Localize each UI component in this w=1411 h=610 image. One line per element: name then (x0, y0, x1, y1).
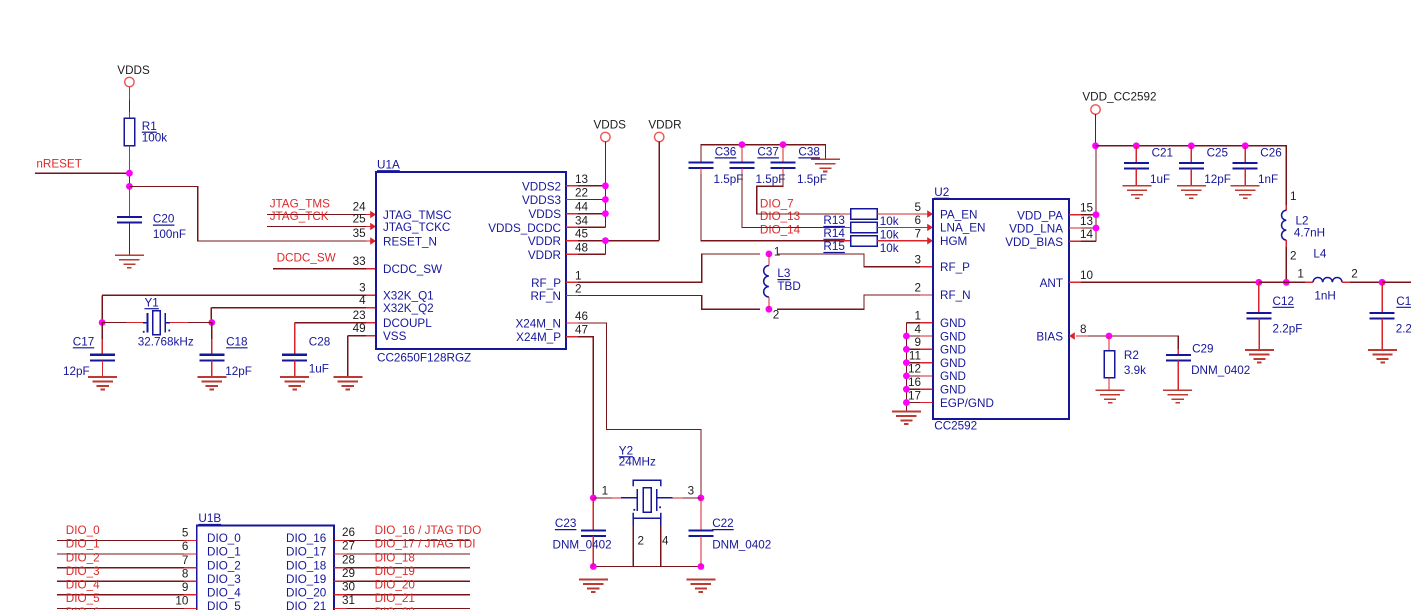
svg-text:VSS: VSS (383, 330, 407, 343)
svg-text:DIO_17: DIO_17 (286, 546, 326, 559)
svg-text:2: 2 (914, 282, 921, 295)
svg-text:8: 8 (182, 567, 189, 580)
junction C37 bus (739, 141, 746, 148)
svg-text:VDDR: VDDR (648, 119, 681, 132)
junction VDD pins (1093, 211, 1100, 231)
svg-text:1: 1 (774, 245, 781, 258)
svg-text:DIO_3: DIO_3 (66, 565, 100, 578)
svg-text:VDDR: VDDR (528, 235, 561, 248)
net label DCDC_SW (277, 252, 336, 265)
wire R13 to PA_EN (877, 213, 933, 215)
pin numbers U1B right (342, 526, 356, 607)
svg-text:6: 6 (182, 540, 189, 553)
svg-text:RF_P: RF_P (531, 277, 561, 290)
junction pin45/48 (602, 237, 609, 244)
svg-text:C26: C26 (1260, 147, 1281, 160)
wire ANT out (1382, 281, 1411, 283)
svg-text:DIO_14: DIO_14 (760, 223, 801, 236)
svg-text:49: 49 (353, 322, 366, 335)
svg-text:1: 1 (1297, 267, 1304, 280)
svg-text:VDDS_DCDC: VDDS_DCDC (488, 222, 561, 235)
svg-text:DIO_16: DIO_16 (286, 532, 326, 545)
capacitor C25 (1179, 146, 1231, 186)
capacitor C37 (730, 145, 786, 186)
wire R1 to node (128, 146, 130, 187)
svg-text:4: 4 (359, 294, 366, 307)
svg-text:DIO_5: DIO_5 (207, 600, 241, 610)
svg-text:X24M_P: X24M_P (516, 331, 561, 344)
pin numbers U1B left (175, 527, 189, 608)
svg-text:1: 1 (1290, 190, 1297, 203)
svg-text:100nF: 100nF (153, 228, 186, 241)
svg-text:DIO_1: DIO_1 (207, 546, 241, 559)
svg-text:X24M_N: X24M_N (516, 318, 561, 331)
svg-text:RF_N: RF_N (940, 289, 971, 302)
svg-text:C29: C29 (1192, 343, 1213, 356)
ground C20 (115, 255, 144, 267)
wire L4 to C13 (1342, 281, 1382, 283)
svg-text:DIO_6: DIO_6 (66, 606, 100, 610)
wire U2 ground bus (906, 323, 932, 412)
junction L2 bottom (1283, 279, 1290, 286)
svg-text:DIO_16 / JTAG TDO: DIO_16 / JTAG TDO (375, 524, 482, 537)
svg-text:10: 10 (1080, 269, 1094, 282)
junction R2 (1106, 333, 1113, 340)
svg-text:45: 45 (575, 228, 589, 241)
svg-text:VDDS: VDDS (594, 119, 627, 132)
svg-text:14: 14 (1080, 228, 1094, 241)
svg-text:1.5pF: 1.5pF (797, 173, 827, 186)
svg-text:48: 48 (575, 241, 588, 254)
svg-text:PA_EN: PA_EN (940, 208, 977, 221)
power symbol VDDR (648, 119, 681, 241)
svg-text:CC2592: CC2592 (934, 420, 977, 433)
svg-text:10k: 10k (880, 215, 899, 228)
svg-text:1nH: 1nH (1314, 290, 1335, 303)
svg-text:C17: C17 (73, 335, 94, 348)
svg-text:Y1: Y1 (145, 296, 159, 309)
svg-text:JTAG_TCK: JTAG_TCK (270, 210, 329, 223)
svg-text:JTAG_TCKC: JTAG_TCKC (383, 221, 450, 234)
svg-text:5: 5 (914, 201, 921, 214)
arrow pin7 (927, 237, 933, 244)
wire node to RESET_N pin (129, 186, 375, 241)
junction C38 bus (780, 141, 787, 148)
capacitor C38 (771, 145, 827, 186)
power symbol VDDS (117, 64, 150, 118)
svg-text:4.7nH: 4.7nH (1294, 226, 1325, 239)
svg-text:1uF: 1uF (309, 363, 329, 376)
net label DIO_14 (760, 223, 801, 236)
capacitor C23 (553, 498, 612, 567)
wire X32K_Q2 (211, 308, 376, 323)
svg-text:27: 27 (342, 540, 355, 553)
inductor L2 (1282, 190, 1326, 282)
svg-text:GND: GND (940, 330, 966, 343)
svg-text:VDDS: VDDS (117, 64, 150, 77)
svg-text:EGP/GND: EGP/GND (940, 397, 994, 410)
svg-text:47: 47 (575, 324, 588, 337)
svg-text:10: 10 (175, 595, 189, 608)
crystal Y2 (619, 444, 673, 518)
svg-text:U1B: U1B (198, 512, 221, 525)
svg-text:C37: C37 (757, 146, 778, 159)
arrow pin8 BIAS (1069, 332, 1075, 339)
junction Y2 pin3 (698, 495, 705, 502)
svg-text:C22: C22 (712, 517, 733, 530)
junction VDD rail (1092, 142, 1099, 149)
svg-text:33: 33 (353, 255, 366, 268)
svg-text:GND: GND (940, 357, 966, 370)
svg-text:6: 6 (914, 214, 921, 227)
svg-text:U1A: U1A (377, 158, 400, 171)
svg-text:12: 12 (908, 363, 921, 376)
wire X24M_N (566, 323, 701, 498)
ground C12 (1245, 350, 1274, 362)
capacitor C21 (1124, 146, 1173, 186)
ground C17 (88, 377, 117, 389)
svg-text:VDD_PA: VDD_PA (1017, 209, 1063, 222)
arrow pin35 RESET_N (370, 237, 376, 244)
svg-text:12pF: 12pF (1204, 173, 1231, 186)
ground cap bus (811, 159, 840, 171)
capacitor C20 (117, 186, 186, 255)
svg-text:2: 2 (638, 534, 645, 547)
junction C21 rail (1133, 142, 1140, 149)
svg-text:3.9k: 3.9k (1124, 364, 1146, 377)
svg-text:3: 3 (914, 254, 921, 267)
svg-text:X32K_Q1: X32K_Q1 (383, 290, 434, 303)
svg-text:C25: C25 (1207, 147, 1229, 160)
svg-text:R2: R2 (1124, 349, 1139, 362)
svg-text:C20: C20 (153, 213, 175, 226)
junction nRESET (126, 170, 133, 177)
capacitor C22 (688, 498, 771, 567)
junction rail right (698, 563, 705, 570)
svg-text:2: 2 (773, 309, 780, 322)
svg-text:C36: C36 (715, 146, 736, 159)
svg-text:32.768kHz: 32.768kHz (138, 336, 194, 349)
svg-text:4: 4 (662, 534, 669, 547)
wire pin13 VDDS2 (566, 185, 605, 187)
svg-text:2: 2 (1351, 267, 1358, 280)
svg-text:L4: L4 (1313, 248, 1327, 261)
wire nRESET (35, 172, 129, 174)
svg-text:10k: 10k (880, 242, 899, 255)
svg-text:VDDS3: VDDS3 (522, 194, 561, 207)
svg-text:2.2pF: 2.2pF (1396, 323, 1411, 336)
wire Y1 left (102, 322, 143, 324)
svg-text:DIO_0: DIO_0 (66, 524, 100, 537)
svg-text:C38: C38 (798, 146, 819, 159)
wire U1B right pins (334, 540, 470, 608)
svg-text:DIO_0: DIO_0 (207, 532, 241, 545)
svg-text:29: 29 (342, 567, 355, 580)
svg-text:HGM: HGM (940, 235, 967, 248)
svg-text:35: 35 (353, 227, 367, 240)
junction Y1 right (208, 319, 215, 326)
ground C18 (197, 377, 226, 389)
ground C13 (1368, 350, 1397, 362)
svg-text:12pF: 12pF (63, 365, 90, 378)
ground C21 (1123, 186, 1152, 198)
svg-text:VDDR: VDDR (528, 249, 561, 262)
resistor R13 (823, 209, 898, 228)
net label JTAG_TMS (270, 197, 330, 210)
svg-text:TBD: TBD (777, 280, 800, 293)
svg-text:9: 9 (914, 336, 921, 349)
wire pin48 VDDR (566, 241, 605, 255)
wire pin34 VDDS_DCDC (566, 226, 605, 228)
arrow pin5 (927, 210, 933, 217)
svg-text:11: 11 (909, 349, 921, 362)
IC U1B (197, 512, 334, 610)
svg-text:L2: L2 (1296, 214, 1309, 227)
wire DCDC_SW (273, 268, 376, 270)
node balun bottom pin2 (766, 306, 780, 322)
wire Y1 right (170, 322, 212, 324)
svg-text:1nF: 1nF (1258, 173, 1278, 186)
resistor R2 (1104, 336, 1146, 390)
wire DIO_7 net (757, 168, 851, 214)
svg-text:46: 46 (575, 310, 588, 323)
node balun top pin1 (766, 245, 781, 258)
ground C23 (579, 580, 608, 592)
svg-text:C13: C13 (1396, 295, 1411, 308)
svg-text:GND: GND (940, 370, 966, 383)
svg-text:GND: GND (940, 384, 966, 397)
resistor R1 (124, 118, 167, 146)
capacitor C12 (1247, 282, 1303, 350)
wire Y2 pin4 (661, 518, 669, 566)
svg-text:VDDS: VDDS (529, 208, 562, 221)
svg-text:DCDC_SW: DCDC_SW (277, 252, 336, 265)
svg-text:DIO_19: DIO_19 (375, 565, 415, 578)
wire VDD_PA (1069, 214, 1096, 216)
IC U1A CC2650F128RGZ (353, 158, 589, 364)
svg-text:2: 2 (575, 282, 582, 295)
junction rail left (590, 563, 597, 570)
svg-text:DIO_18: DIO_18 (375, 551, 415, 564)
wire cap bus (701, 145, 825, 163)
svg-text:ANT: ANT (1040, 277, 1063, 290)
svg-text:26: 26 (342, 526, 355, 539)
ground C29 (1163, 390, 1192, 402)
svg-text:3: 3 (688, 485, 695, 498)
svg-text:VDDS2: VDDS2 (522, 180, 561, 193)
wire DIO_14 net (701, 168, 851, 241)
svg-text:DIO_2: DIO_2 (207, 559, 241, 572)
svg-text:9: 9 (182, 581, 189, 594)
IC U2 CC2592 (908, 186, 1094, 433)
junction Y1 left (99, 319, 106, 326)
svg-text:DIO_5: DIO_5 (66, 592, 100, 605)
wire JTAG_TMS (267, 214, 376, 216)
svg-text:R15: R15 (823, 240, 845, 253)
svg-text:DIO_2: DIO_2 (66, 551, 100, 564)
ground R2 (1096, 390, 1125, 402)
net label DIO_7 (760, 198, 794, 211)
wire Y2 pin3 (673, 485, 701, 498)
svg-text:1.5pF: 1.5pF (756, 173, 786, 186)
capacitor C17 (63, 323, 115, 378)
junction C26 rail (1242, 142, 1249, 149)
capacitor C28 (282, 336, 330, 378)
arrow pin25 (370, 223, 376, 230)
inductor L4 (1297, 248, 1357, 303)
wire pin22 VDDS3 (566, 199, 605, 201)
svg-text:DIO_1: DIO_1 (66, 538, 100, 551)
svg-text:RF_N: RF_N (530, 290, 561, 303)
svg-text:5: 5 (182, 527, 189, 540)
svg-text:DCOUPL: DCOUPL (383, 317, 432, 330)
ground C26 (1231, 186, 1260, 198)
svg-text:DIO_4: DIO_4 (207, 587, 241, 600)
capacitor C29 (1166, 343, 1250, 391)
capacitor C36 (689, 146, 744, 186)
svg-text:DIO_3: DIO_3 (207, 573, 241, 586)
svg-text:VDD_CC2592: VDD_CC2592 (1082, 90, 1156, 103)
svg-text:JTAG_TMS: JTAG_TMS (270, 197, 330, 210)
svg-text:44: 44 (575, 201, 589, 214)
net labels DIO_0-5 (66, 524, 100, 610)
svg-text:VDD_LNA: VDD_LNA (1009, 223, 1063, 236)
arrow pin24 (370, 211, 376, 218)
wire VDD_BIAS (1069, 146, 1096, 242)
svg-text:1uF: 1uF (1150, 173, 1170, 186)
junction C12 (1255, 279, 1262, 286)
svg-text:7: 7 (914, 228, 921, 241)
wire RF_N (566, 295, 760, 309)
wire VDD rail (1096, 146, 1287, 205)
svg-text:DIO_20: DIO_20 (286, 587, 327, 600)
crystal Y1 (138, 296, 194, 348)
svg-text:2: 2 (1290, 249, 1297, 262)
svg-text:L3: L3 (777, 267, 790, 280)
net label nRESET (36, 157, 81, 170)
svg-text:DCDC_SW: DCDC_SW (383, 263, 442, 276)
svg-text:DIO_21: DIO_21 (375, 592, 415, 605)
wire R14 to LNA_EN (877, 226, 933, 228)
svg-text:X32K_Q2: X32K_Q2 (383, 302, 434, 315)
capacitor C26 (1233, 146, 1282, 186)
capacitor C13 (1370, 282, 1411, 350)
svg-text:VDD_BIAS: VDD_BIAS (1005, 236, 1063, 249)
svg-text:DIO_13: DIO_13 (760, 210, 800, 223)
net labels DIO_16-21 (375, 524, 482, 610)
svg-text:R14: R14 (823, 227, 845, 240)
wire VSS (348, 336, 376, 377)
resistor R15 (823, 236, 898, 255)
svg-text:DIO_21: DIO_21 (286, 600, 326, 610)
svg-text:23: 23 (353, 309, 366, 322)
svg-text:13: 13 (1080, 215, 1093, 228)
svg-text:28: 28 (342, 553, 355, 566)
wire VDD_LNA (1069, 227, 1096, 229)
svg-text:8: 8 (1080, 323, 1087, 336)
svg-text:DNM_0402: DNM_0402 (712, 538, 771, 551)
svg-text:C18: C18 (226, 335, 247, 348)
svg-text:DIO_7: DIO_7 (760, 198, 794, 211)
svg-text:1: 1 (575, 269, 582, 282)
svg-text:DIO_17 / JTAG TDI: DIO_17 / JTAG TDI (375, 538, 476, 551)
net label JTAG_TCK (270, 210, 329, 223)
svg-text:DIO_20: DIO_20 (375, 579, 416, 592)
ground C28 (280, 377, 309, 389)
svg-text:100k: 100k (142, 132, 168, 145)
inductor L3 (764, 254, 801, 309)
wire pin44 VDDS (566, 213, 605, 215)
svg-text:4: 4 (914, 323, 921, 336)
svg-text:GND: GND (940, 317, 966, 330)
svg-text:13: 13 (575, 173, 588, 186)
wire R15 to HGM (877, 240, 933, 242)
svg-text:C21: C21 (1152, 147, 1173, 160)
svg-text:17: 17 (908, 389, 921, 402)
svg-text:31: 31 (342, 594, 355, 607)
svg-text:12pF: 12pF (225, 365, 252, 378)
wire Y2 pin2 (633, 518, 644, 566)
wire JTAG_TCK (267, 226, 376, 228)
resistor R14 (823, 222, 898, 241)
svg-text:DIO_19: DIO_19 (286, 573, 326, 586)
wire RF_P (566, 254, 760, 282)
svg-text:15: 15 (1080, 202, 1094, 215)
svg-text:U2: U2 (934, 186, 949, 199)
svg-text:24MHz: 24MHz (619, 456, 656, 469)
wire balun bottom (777, 295, 933, 309)
junction C25 rail (1188, 142, 1195, 149)
power symbol VDD_CC2592 (1082, 90, 1156, 146)
svg-text:34: 34 (575, 214, 589, 227)
wire X24M_P (566, 337, 593, 498)
svg-text:2.2pF: 2.2pF (1273, 323, 1303, 336)
svg-text:3: 3 (359, 282, 366, 295)
ground VSS (333, 377, 362, 389)
svg-text:22: 22 (575, 187, 588, 200)
wire pin45 VDDR (566, 240, 659, 242)
wire X32K_Q1 (102, 295, 376, 322)
svg-text:nRESET: nRESET (36, 157, 81, 170)
capacitor C18 (199, 323, 252, 378)
svg-text:1: 1 (914, 310, 921, 323)
svg-text:DNM_0402: DNM_0402 (553, 538, 612, 551)
svg-text:DIO_4: DIO_4 (66, 579, 100, 592)
svg-text:DIO_18: DIO_18 (286, 559, 326, 572)
svg-text:16: 16 (908, 376, 921, 389)
svg-text:10k: 10k (880, 229, 899, 242)
svg-text:RF_P: RF_P (940, 261, 970, 274)
svg-text:C28: C28 (309, 336, 330, 349)
ground U2 (892, 412, 921, 424)
svg-text:C23: C23 (555, 517, 576, 530)
svg-text:LNA_EN: LNA_EN (940, 222, 985, 235)
power symbol VDDS mid (594, 119, 627, 228)
svg-text:1.5pF: 1.5pF (714, 173, 744, 186)
wire ANT (1069, 281, 1259, 283)
net label DIO_13 (760, 210, 800, 223)
junction gnd pins (903, 333, 910, 406)
wire ANT to L4 (1259, 281, 1313, 283)
wire DCOUPL (295, 323, 376, 355)
svg-text:CC2650F128RGZ: CC2650F128RGZ (377, 351, 471, 364)
svg-text:7: 7 (182, 554, 189, 567)
svg-text:DNM_0402: DNM_0402 (1191, 364, 1250, 377)
wire U1B left pins (57, 540, 197, 608)
ground C22 (686, 580, 715, 592)
svg-text:DIO_22: DIO_22 (375, 606, 415, 610)
svg-text:30: 30 (342, 581, 356, 594)
